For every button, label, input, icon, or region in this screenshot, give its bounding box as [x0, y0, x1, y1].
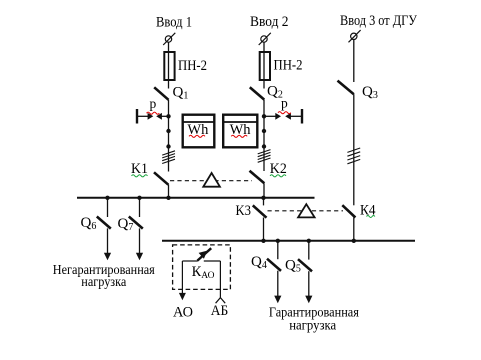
wire: input 2 from Q2 down to bus 1	[263, 100, 265, 171]
svg-text:АО: АО	[173, 305, 193, 321]
wire: input 1 drop from terminal to Q1	[168, 42, 170, 88]
wire: Q7 down with arrow	[139, 228, 141, 253]
switch Q7 blade	[129, 217, 143, 229]
interlock dashed link K1-K2	[170, 180, 252, 182]
input terminal 2 (circle with slash)	[259, 33, 271, 45]
wire: input 1 from Q1 down to bus 1	[168, 100, 170, 172]
contactor КАО blade with arrow	[197, 248, 211, 260]
wire: Q6 down with arrow	[107, 228, 109, 253]
plug connector p (left): bar, line, facing arrows	[137, 109, 169, 124]
wire: input 2 drop from terminal to Q2	[263, 42, 265, 88]
junction dots on bus 2	[261, 239, 265, 243]
wire: bus 1 down to K3	[263, 198, 265, 206]
cable hatch on input 2 wire (4 strokes)	[258, 150, 271, 163]
cable hatch on input 1 wire (4 strokes)	[162, 151, 175, 164]
input terminal 3 (circle with slash)	[349, 30, 361, 42]
wire: КАО top links	[182, 260, 197, 262]
meter Wh (input 1)	[182, 115, 215, 148]
switch Q4 blade	[267, 259, 281, 271]
switch Q1 blade	[154, 87, 168, 100]
plug connector p (right): line, facing arrows, bar	[264, 109, 302, 124]
interlock dashed link K3-K4	[268, 210, 344, 212]
svg-text:ПН-2: ПН-2	[274, 58, 303, 74]
feeder Q5: wire from bus 2	[308, 241, 310, 260]
wire: input 3 drop to Q3	[353, 40, 355, 83]
interlock triangle (K1-K2)	[203, 173, 220, 187]
switch Q5 blade	[298, 259, 312, 271]
interlock triangle (K3-K4)	[298, 204, 315, 217]
wire: КАО right leg to battery fork АБ	[219, 261, 221, 298]
contactor K2 blade	[250, 171, 265, 184]
svg-text:ПН-2: ПН-2	[178, 58, 207, 74]
automatic lighting changeover unit (dashed enclosure)	[173, 245, 231, 290]
green squiggle under К4	[367, 216, 375, 218]
svg-text:нагрузка: нагрузка	[289, 319, 337, 334]
contactor K1 blade	[154, 172, 168, 184]
red squiggle under p (right)	[278, 112, 291, 114]
switch Q3 blade	[338, 81, 354, 95]
green squiggle under K1	[132, 175, 148, 177]
svg-text:Ввод 1: Ввод 1	[156, 15, 192, 31]
bus 2 (guaranteed section busbar)	[162, 240, 415, 242]
fuse F1 ПН-2	[164, 52, 174, 80]
svg-text:K3: K3	[236, 203, 252, 219]
red squiggle under p (left)	[147, 112, 160, 114]
svg-text:p: p	[150, 96, 157, 111]
bus 1 (non-guaranteed section busbar)	[77, 197, 315, 199]
wire: Q5 down with arrow	[308, 271, 310, 296]
contactor K4 blade	[342, 205, 355, 217]
svg-text:p: p	[281, 96, 288, 111]
wire: Q4 down with arrow	[277, 271, 279, 297]
svg-text:Ввод 3 от ДГУ: Ввод 3 от ДГУ	[340, 13, 418, 29]
wire: K3 to bus 2	[263, 218, 265, 241]
feeder Q7: wire from bus 1	[139, 198, 141, 217]
junction dots on input 1 wire	[166, 114, 170, 118]
switch Q6 blade	[97, 217, 111, 229]
svg-text:К4: К4	[360, 203, 376, 219]
wire: КАО left leg with arrow to АО	[181, 261, 183, 294]
cable hatch on input 3 wire (4 strokes)	[347, 148, 360, 164]
wire: input 3 from Q3 down to K4	[353, 94, 355, 205]
feeder Q4: wire from bus 2	[277, 241, 279, 259]
green squiggle under K2	[270, 175, 286, 177]
svg-text:АБ: АБ	[211, 303, 229, 319]
input terminal 1 (circle with slash)	[163, 33, 175, 45]
svg-text:нагрузка: нагрузка	[81, 275, 127, 290]
junction dots on input 2 wire	[262, 114, 266, 118]
svg-text:Ввод 2: Ввод 2	[250, 14, 289, 30]
junction dots on bus 1	[105, 196, 109, 200]
feeder Q6: wire from bus 1	[107, 198, 109, 217]
contactor K3 blade	[253, 205, 267, 217]
fuse F2 ПН-2	[260, 52, 270, 80]
wire: K4 to bus 2	[353, 218, 355, 241]
meter Wh (input 2)	[223, 115, 258, 148]
switch Q2 blade	[250, 87, 264, 99]
